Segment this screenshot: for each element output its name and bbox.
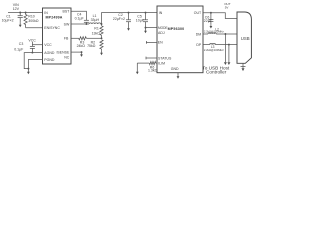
svg-text:AGND: AGND (44, 51, 55, 55)
svg-text:OUT: OUT (194, 11, 202, 15)
svg-text:DM: DM (196, 32, 202, 36)
ground (R6) (136, 69, 139, 74)
capacitor C2 (113, 12, 131, 26)
svg-text:EN/SYNC: EN/SYNC (44, 26, 60, 30)
capacitor C4 (75, 12, 89, 25)
wire OUT net (203, 13, 237, 19)
svg-text:NC: NC (64, 56, 70, 60)
wire DP drop to host (227, 45, 230, 65)
L3 labels (204, 45, 224, 52)
svg-text:MP56300: MP56300 (168, 27, 185, 31)
svg-text:0.1µF: 0.1µF (75, 17, 84, 21)
ground (C2) (127, 26, 130, 31)
ground (ISENSE) (80, 52, 83, 57)
inductor L1 (89, 23, 101, 24)
capacitor C3 (14, 42, 35, 54)
svg-text:DP: DP (196, 43, 202, 47)
svg-text:24kΩ: 24kΩ (77, 44, 86, 48)
wire SW (71, 23, 89, 25)
wire ISENSE (71, 51, 82, 53)
wire MODE (146, 27, 158, 29)
capacitor C1 (2, 12, 23, 23)
ground (C6) (210, 24, 213, 28)
svg-text:MP2499A: MP2499A (46, 15, 63, 19)
svg-text:13kΩ: 13kΩ (92, 32, 101, 36)
svg-text:75kΩ: 75kΩ (87, 44, 96, 48)
svg-text:GND: GND (171, 67, 179, 71)
svg-text:10µF×2: 10µF×2 (2, 19, 14, 23)
svg-text:ADJ: ADJ (158, 31, 165, 35)
svg-text:22µF: 22µF (204, 19, 212, 23)
svg-text:5V: 5V (225, 6, 229, 10)
resistor R2 (87, 40, 103, 51)
svg-text:SW: SW (64, 22, 70, 26)
ground (R2) (100, 51, 103, 56)
wire BST (71, 11, 86, 20)
svg-text:ILIM: ILIM (158, 62, 165, 66)
ground (C1) (19, 23, 22, 28)
ground (C5) (144, 28, 147, 34)
resistor R6 (ILIM) (137, 62, 157, 73)
svg-text:12V: 12V (13, 7, 20, 11)
svg-text:0.1µF: 0.1µF (14, 48, 23, 52)
ground (U2 GND pin) (177, 73, 180, 79)
wire VIN rail (8, 12, 43, 14)
svg-text:EN: EN (158, 41, 163, 45)
svg-text:IN: IN (159, 11, 163, 15)
svg-text:22µF×2: 22µF×2 (113, 17, 125, 21)
svg-text:2.2kΩ@100MHz: 2.2kΩ@100MHz (204, 30, 224, 34)
ground (USB shield) (241, 63, 246, 71)
capacitor C5 (136, 12, 148, 29)
note To USB Host Controller (202, 65, 230, 74)
op IC U2 MP56300 box (157, 6, 203, 73)
wire EN/SYNC (26, 27, 43, 29)
svg-text:1.3kΩ: 1.3kΩ (148, 69, 158, 73)
svg-text:STATUS: STATUS (158, 57, 172, 61)
svg-text:VCC: VCC (44, 43, 52, 47)
wire output rail (102, 13, 158, 24)
resistor R10 (24, 12, 39, 28)
net VCC label + wire (28, 39, 42, 47)
svg-text:33µH: 33µH (91, 18, 100, 22)
net OUT 5V label (224, 2, 231, 9)
wire DP + ferrite L3 (203, 43, 237, 45)
svg-text:PGND: PGND (44, 58, 55, 62)
wire PGND (28, 60, 42, 69)
wire EN stub (146, 41, 157, 44)
svg-text:USB: USB (241, 36, 250, 41)
svg-text:R1: R1 (94, 27, 99, 31)
capacitor C6 (204, 12, 214, 24)
connector USB receptacle (237, 12, 251, 63)
wire AGND (24, 53, 42, 69)
wire FB + resistor R3 (71, 37, 102, 48)
svg-text:2.2kΩ@100MHz: 2.2kΩ@100MHz (204, 48, 224, 52)
svg-text:FB: FB (64, 37, 69, 41)
resistor R1 (92, 24, 104, 38)
svg-text:MODE: MODE (158, 26, 168, 30)
L2 labels (204, 27, 224, 33)
wire DM drop to host (224, 34, 227, 65)
svg-text:10µF: 10µF (136, 18, 144, 22)
ground (AGND/PGND) (27, 68, 30, 75)
wire DM + ferrite L2 (203, 33, 237, 35)
wire STATUS stub (146, 57, 157, 60)
svg-text:IN: IN (44, 11, 48, 15)
svg-text:VCC: VCC (28, 39, 36, 43)
node SW/L1 output junction (101, 23, 103, 25)
svg-text:R10: R10 (28, 14, 34, 18)
svg-text:BST: BST (62, 10, 70, 14)
svg-text:C3: C3 (19, 42, 24, 46)
svg-text:Controller: Controller (206, 69, 227, 74)
svg-text:ISENSE: ISENSE (56, 50, 70, 54)
svg-text:300kΩ: 300kΩ (28, 19, 39, 23)
op IC U1 MP2499A box (43, 8, 72, 64)
net VIN 12V label (13, 3, 20, 11)
